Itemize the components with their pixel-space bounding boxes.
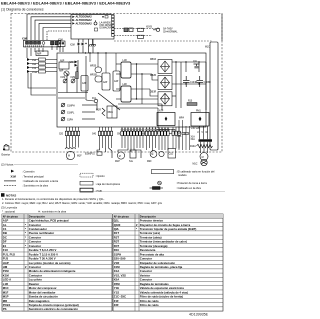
top-right dot bbox=[102, 16, 104, 18]
legend model-dependent wiring bbox=[151, 170, 173, 174]
NOTAS header bbox=[1, 193, 5, 197]
separator above notes bbox=[0, 190, 225, 192]
compressor M1C bbox=[200, 153, 208, 166]
wires X2M and X1A to switch box bbox=[60, 39, 93, 53]
dashed compartment line bbox=[114, 40, 212, 42]
diode bridge DB1R bbox=[158, 60, 172, 74]
terminal block X1M bbox=[22, 38, 61, 47]
resistor R10 bbox=[187, 103, 197, 106]
pressure sensor S1NPL bbox=[61, 110, 65, 114]
option connectors row bbox=[114, 28, 160, 38]
junction dots on box top bbox=[85, 52, 107, 53]
contactor box Q1DI bbox=[168, 149, 176, 159]
PCB A3P bbox=[81, 76, 88, 92]
wire loop to switch box bbox=[27, 56, 56, 95]
right boundary solid segment bbox=[221, 14, 223, 42]
connector block left of bar bbox=[182, 132, 188, 134]
svg-text:#: # bbox=[25, 265, 27, 269]
power module PM1 bbox=[191, 113, 209, 127]
pin strip under PM2 bbox=[157, 129, 175, 133]
DC bus wires bbox=[118, 62, 206, 128]
small connector inside box bbox=[94, 28, 97, 31]
power module PM2 bbox=[157, 113, 175, 126]
relay K5R coil bbox=[64, 71, 69, 76]
svg-text:*: * bbox=[136, 227, 138, 231]
reactor L2R bbox=[121, 86, 131, 102]
legend option box bbox=[80, 173, 93, 177]
legend earth protector bbox=[158, 181, 162, 185]
wires inside main box left bbox=[78, 56, 97, 119]
connector X3A (black pair) bbox=[75, 61, 78, 64]
thermal protector Q1L bbox=[194, 64, 200, 68]
fuse FU1 bbox=[94, 99, 98, 103]
legend table right bbox=[113, 214, 223, 311]
svg-text:Filtro de ruido: Filtro de ruido bbox=[140, 303, 159, 307]
terminal X2M bbox=[58, 41, 65, 47]
PCB A2P tall box bbox=[102, 73, 110, 90]
unit boundary dashed rect bbox=[11, 14, 222, 153]
wires reactors to bridges bbox=[116, 64, 158, 104]
legend field supply bbox=[4, 185, 16, 187]
fan motor M2F bbox=[150, 151, 164, 158]
bus wire bbox=[58, 62, 120, 110]
relay oval K1R bbox=[95, 67, 102, 73]
wires below X1M bbox=[27, 46, 57, 57]
connector row S100 bbox=[172, 131, 180, 135]
relay K1M bbox=[63, 79, 75, 83]
legend PCB bbox=[80, 188, 93, 192]
varistor MOV bbox=[197, 144, 213, 147]
capacitor C1 bbox=[183, 76, 190, 87]
fan motor M1F bbox=[65, 148, 76, 160]
diode bridge DB2R bbox=[158, 76, 172, 90]
connector stack X5A-X8A bbox=[27, 58, 57, 74]
svg-text:4D139935E: 4D139935E bbox=[189, 313, 209, 317]
pressure sensor S1NPH bbox=[61, 103, 65, 107]
svg-text:*: * bbox=[25, 244, 27, 248]
relay A5P bbox=[59, 62, 69, 69]
user I/O box (inputs) bbox=[71, 15, 115, 40]
legend connection symbol bbox=[11, 170, 14, 173]
wire bundle between modules bbox=[179, 120, 190, 150]
legend field wiring symbol bbox=[150, 187, 164, 190]
pin ladder bbox=[112, 15, 115, 36]
wires upper mid of switch box bbox=[90, 53, 116, 73]
reactor L1R bbox=[121, 62, 131, 78]
svg-text:Suministro eléctrico de conmut: Suministro eléctrico de conmutación bbox=[29, 307, 78, 311]
wire jogs below S90 bbox=[97, 148, 141, 158]
flow switch bbox=[130, 150, 136, 158]
connector X801 bbox=[107, 106, 117, 118]
relay oval K2R bbox=[95, 76, 102, 82]
coil L6R bbox=[76, 72, 79, 79]
capacitor C2 bbox=[197, 76, 204, 87]
pins under PM1 bbox=[200, 126, 208, 139]
relay M1R bbox=[102, 108, 105, 116]
legend table left bbox=[2, 214, 112, 311]
junction dots bbox=[175, 61, 199, 84]
legend earth wiring bbox=[4, 180, 16, 182]
wires to compressor bbox=[201, 142, 208, 153]
pump M1P bbox=[117, 152, 124, 159]
exterior icon bbox=[2, 144, 11, 156]
compressor terminal bar bbox=[199, 139, 213, 141]
surge arrester box A8P bbox=[36, 51, 48, 56]
diode bridge DB3R bbox=[158, 92, 172, 106]
field wiring bus (nested wires top-left) bbox=[27, 14, 111, 40]
ground symbol below I/O box bbox=[89, 39, 96, 47]
PCB A4P bbox=[113, 71, 120, 91]
svg-text:Z2F: Z2F bbox=[114, 303, 119, 307]
svg-text:PS: PS bbox=[3, 307, 7, 311]
legend switch box bbox=[80, 181, 93, 185]
connector X1A bbox=[70, 43, 85, 47]
high pressure switch S1PH bbox=[61, 117, 65, 121]
cable duct box right bbox=[210, 42, 218, 150]
buzzer bbox=[94, 22, 97, 25]
switch box (main solid box) bbox=[57, 53, 206, 127]
